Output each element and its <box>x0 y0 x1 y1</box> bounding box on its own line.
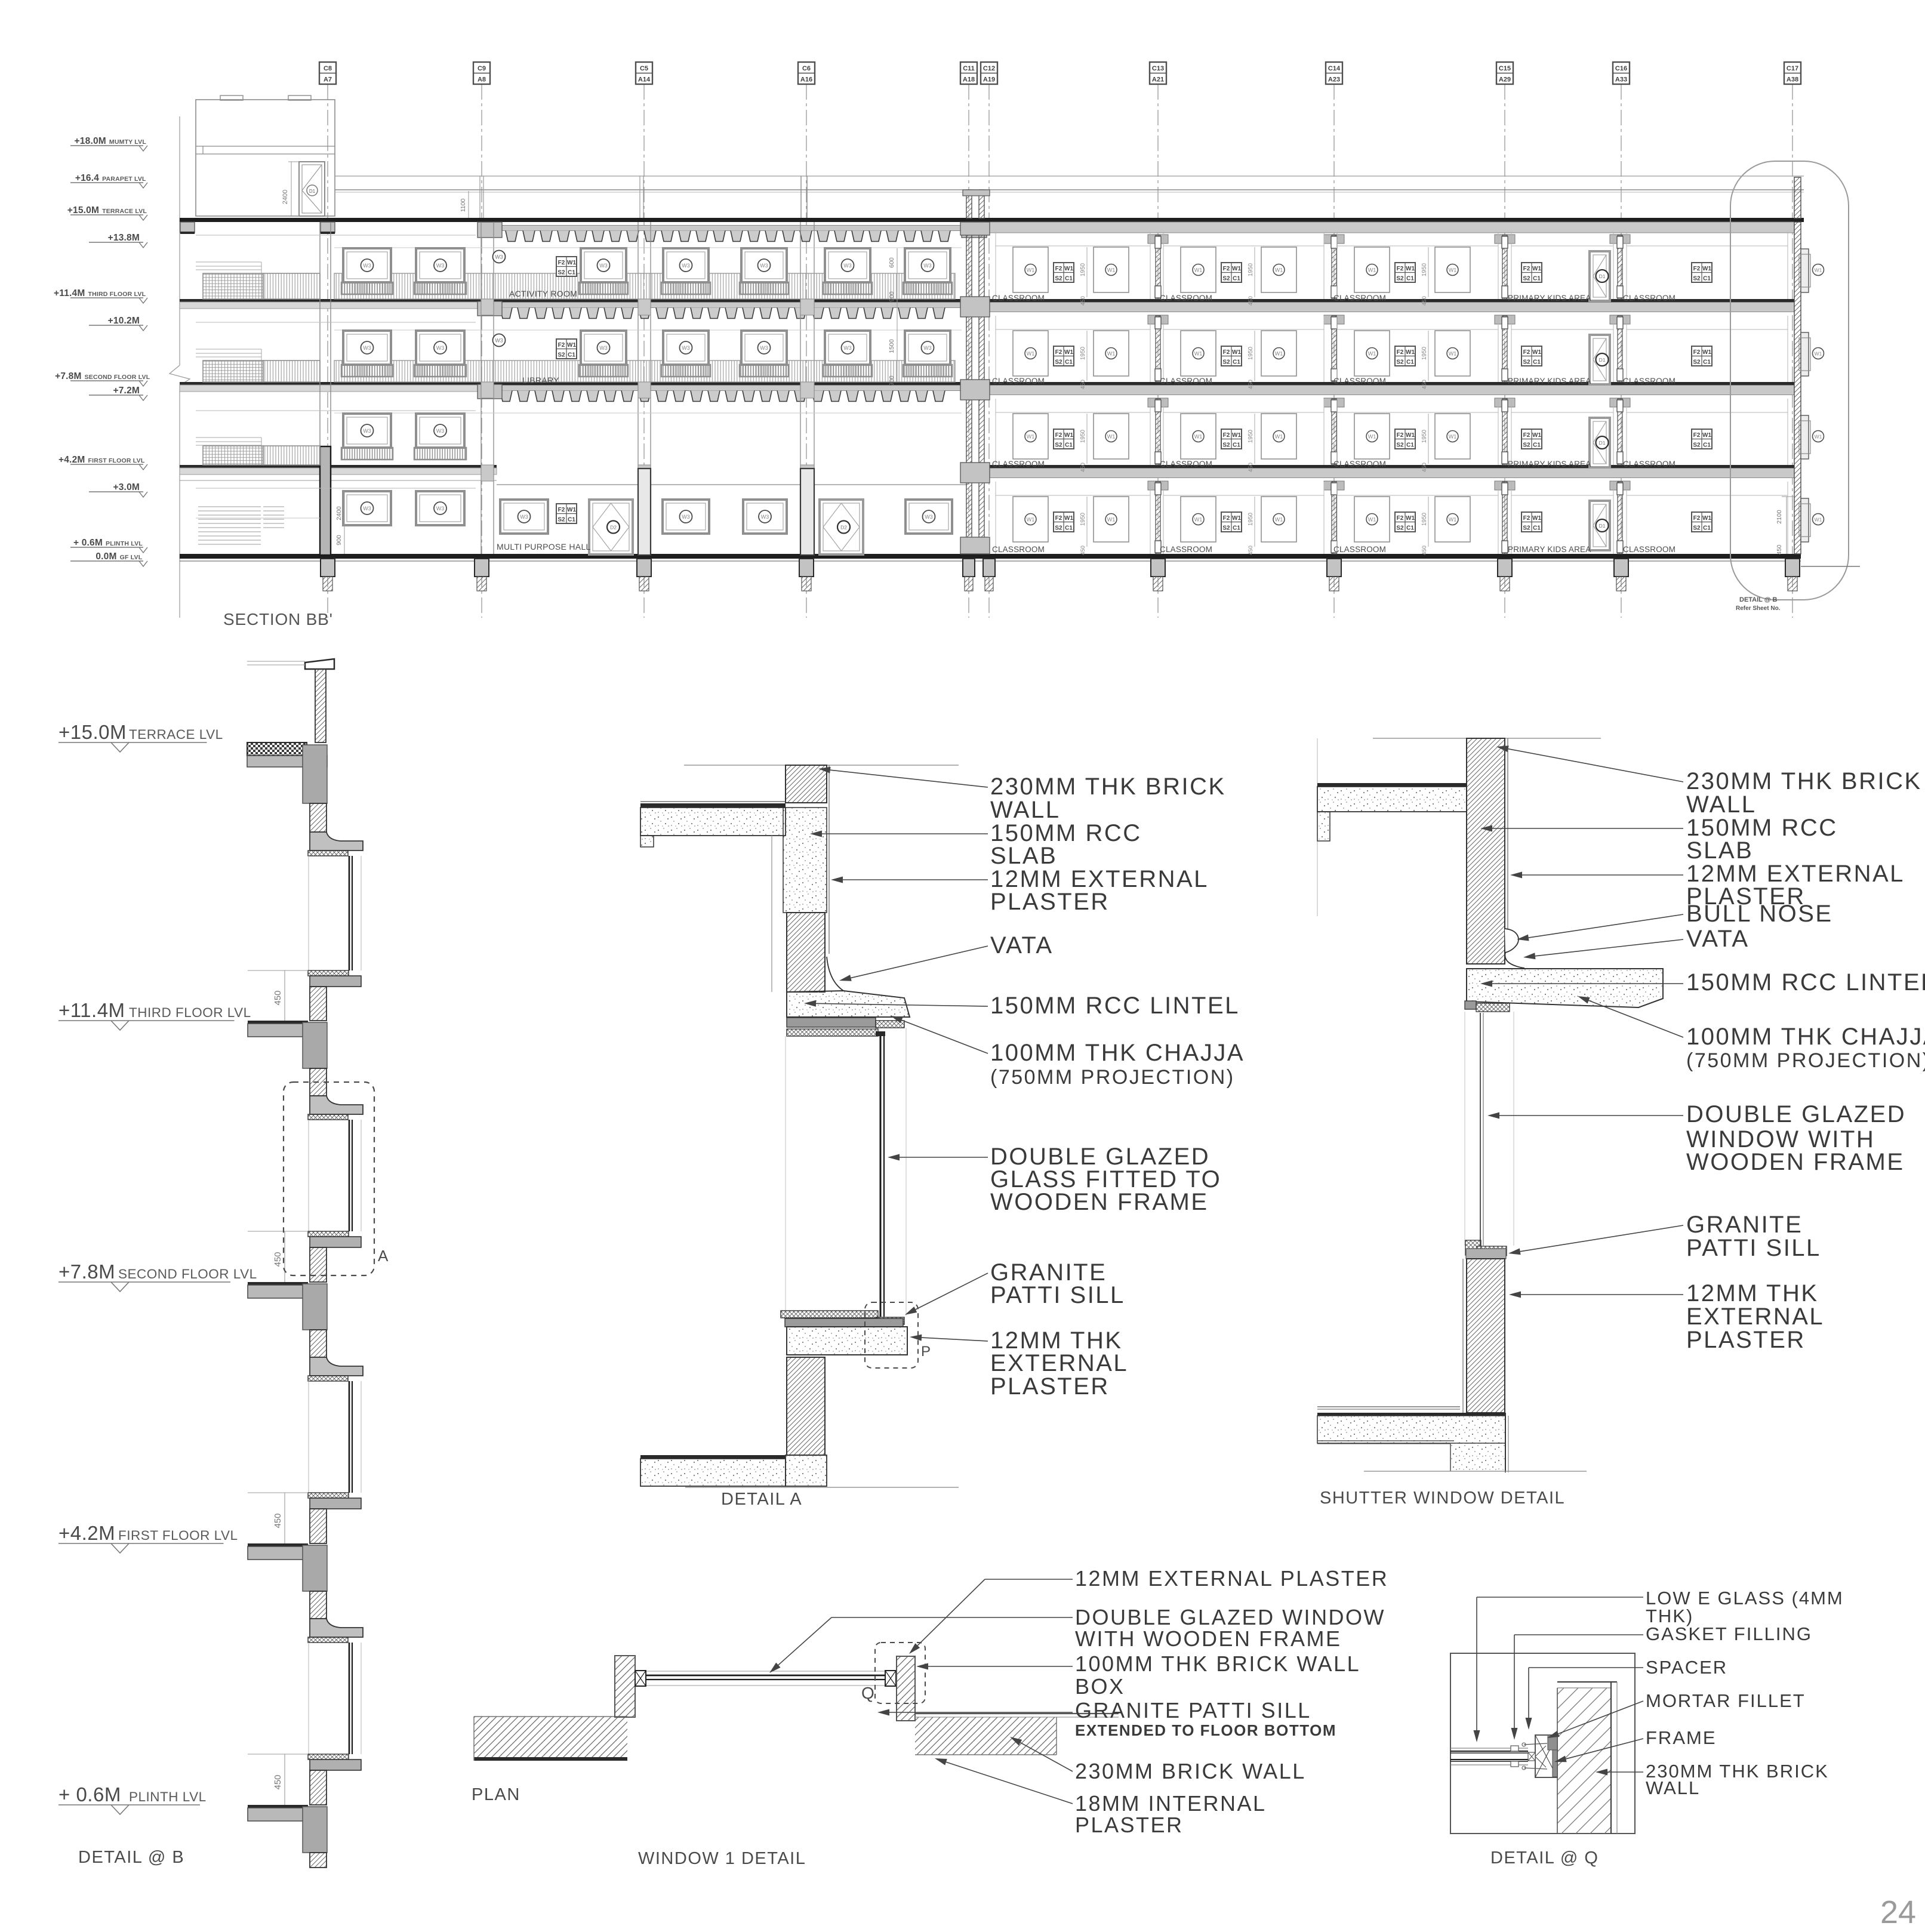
svg-text:1950: 1950 <box>1080 346 1086 360</box>
svg-text:W3: W3 <box>682 345 690 351</box>
svg-text:S2: S2 <box>1693 442 1701 449</box>
grid bubble C9/A8 <box>473 62 490 84</box>
svg-text:W1: W1 <box>1406 432 1415 439</box>
svg-text:C1: C1 <box>1703 276 1711 282</box>
svg-text:600: 600 <box>888 257 895 268</box>
svg-text:W1: W1 <box>1449 351 1457 357</box>
svg-text:CLASSROOM: CLASSROOM <box>1623 377 1675 386</box>
second floor slab band with waffle ribs <box>497 382 962 386</box>
svg-text:CLASSROOM: CLASSROOM <box>992 460 1045 469</box>
window W1 <box>1354 247 1390 292</box>
tag box F2/W1/S2/C1 <box>1692 263 1712 282</box>
window W3 <box>663 331 709 365</box>
svg-text:W1: W1 <box>1368 434 1376 440</box>
tag box F2/W1/S2/C1 <box>1221 263 1242 282</box>
bay CLASSROOM row r3 <box>995 233 996 299</box>
svg-text:F2: F2 <box>1055 432 1062 439</box>
grid line C15/A29 <box>1504 84 1505 618</box>
level label +11.4M THIRD FLOOR LVL <box>70 297 143 298</box>
window W1 <box>1094 331 1129 376</box>
svg-text:W3: W3 <box>682 263 690 269</box>
svg-text:CLASSROOM: CLASSROOM <box>1160 545 1212 554</box>
svg-text:12MM THK: 12MM THK <box>1686 1280 1819 1307</box>
grid line C14/A23 <box>1333 84 1335 618</box>
tag box F2/W1/S2/C1 <box>556 504 577 523</box>
svg-text:F2: F2 <box>1397 432 1404 439</box>
svg-text:W1: W1 <box>1815 434 1822 440</box>
bay CLASSROOM row r3 <box>1336 233 1338 299</box>
sill <box>781 1311 878 1318</box>
svg-text:TERRACE LVL: TERRACE LVL <box>129 727 223 742</box>
right wall <box>915 1713 1119 1714</box>
svg-text:F2: F2 <box>1693 266 1701 272</box>
grid line C12/A19 <box>988 84 990 618</box>
svg-text:100MM THK BRICK WALL: 100MM THK BRICK WALL <box>1075 1651 1360 1676</box>
svg-text:1950: 1950 <box>1421 429 1428 443</box>
tag box F2/W1/S2/C1 <box>1395 263 1415 282</box>
svg-text:C15: C15 <box>1499 65 1511 72</box>
brick wall <box>1467 738 1505 964</box>
mumty tower <box>196 100 335 216</box>
svg-text:W1: W1 <box>1702 349 1711 356</box>
wall at C9 <box>481 222 482 554</box>
svg-text:450: 450 <box>1248 546 1254 555</box>
svg-text:+ 0.6M: + 0.6M <box>58 1783 121 1805</box>
dashed box Q <box>875 1643 925 1703</box>
window head lines <box>334 247 962 248</box>
svg-text:C1: C1 <box>1065 276 1073 282</box>
bay CLASSROOM row r2 <box>1626 316 1627 382</box>
terrace slab (thick section line) <box>180 218 1804 222</box>
svg-text:F2: F2 <box>1223 349 1230 356</box>
dim 1100 parapet <box>468 191 469 218</box>
svg-text:W1: W1 <box>567 507 576 513</box>
svg-text:C11: C11 <box>963 65 975 72</box>
svg-text:F2: F2 <box>1223 515 1230 522</box>
detail reference balloon <box>1730 161 1849 600</box>
window W1 <box>1013 497 1048 542</box>
svg-text:W1: W1 <box>1275 267 1283 273</box>
svg-text:S2: S2 <box>1222 442 1230 449</box>
tag box F2/W1/S2/C1 <box>1221 346 1242 366</box>
window (plan) <box>1450 1748 1528 1749</box>
svg-text:DOUBLE GLAZED: DOUBLE GLAZED <box>1686 1101 1906 1127</box>
svg-text:DETAIL A: DETAIL A <box>721 1490 802 1509</box>
svg-text:150MM RCC LINTEL: 150MM RCC LINTEL <box>1686 969 1925 996</box>
stair railing band <box>203 273 263 299</box>
wall below sill <box>310 1770 327 1805</box>
svg-text:C5: C5 <box>640 65 648 72</box>
svg-text:W3: W3 <box>495 254 503 260</box>
grid bubble C6/A16 <box>798 62 815 84</box>
svg-text:W3: W3 <box>682 514 690 520</box>
svg-text:2400: 2400 <box>335 506 343 520</box>
top reference line <box>684 765 959 766</box>
window W3 <box>343 491 391 525</box>
svg-text:C1: C1 <box>1703 359 1711 366</box>
dashed detail box A <box>284 1082 374 1275</box>
svg-text:450: 450 <box>1080 380 1086 389</box>
svg-text:C1: C1 <box>1703 525 1711 532</box>
svg-text:PATTI SILL: PATTI SILL <box>1686 1235 1821 1261</box>
svg-text:C1: C1 <box>1533 525 1541 532</box>
svg-text:CLASSROOM: CLASSROOM <box>992 545 1045 554</box>
svg-text:2400: 2400 <box>282 190 289 204</box>
sill level line + dim 450 <box>248 1231 308 1232</box>
svg-text:C1: C1 <box>1065 525 1073 532</box>
svg-text:CLASSROOM: CLASSROOM <box>1623 294 1675 303</box>
window W3 <box>581 248 626 282</box>
svg-text:230MM THK BRICK: 230MM THK BRICK <box>990 774 1226 800</box>
svg-text:+11.4M: +11.4M <box>54 288 85 298</box>
svg-text:ACTIVITY ROOM: ACTIVITY ROOM <box>509 289 577 298</box>
svg-text:LIBRARY: LIBRARY <box>522 375 559 385</box>
svg-text:A21: A21 <box>1152 76 1164 84</box>
level label +10.2M <box>89 325 143 326</box>
svg-text:D1: D1 <box>1599 273 1606 279</box>
svg-text:W3: W3 <box>599 263 608 269</box>
svg-text:F2: F2 <box>558 507 565 513</box>
frame blocks <box>635 1671 646 1686</box>
svg-text:F2: F2 <box>1693 349 1701 356</box>
window W1 <box>1354 331 1390 376</box>
svg-text:450: 450 <box>1248 296 1254 306</box>
svg-text:S2: S2 <box>1693 276 1701 282</box>
svg-text:450: 450 <box>273 1252 283 1267</box>
svg-text:+15.0M: +15.0M <box>67 205 99 215</box>
svg-text:SLAB: SLAB <box>990 843 1057 869</box>
stair zone lines and railings <box>196 235 476 236</box>
svg-text:W3: W3 <box>363 263 371 269</box>
tag box F2/W1/S2/C1 <box>556 339 577 359</box>
svg-text:S2: S2 <box>1396 276 1404 282</box>
svg-text:GF LVL: GF LVL <box>120 554 143 561</box>
svg-text:24: 24 <box>1880 1894 1916 1930</box>
interior dims <box>897 248 898 382</box>
window W1 <box>1013 247 1048 292</box>
grid line C9/A8 <box>481 84 482 618</box>
sill <box>308 1493 349 1498</box>
sill <box>308 1754 349 1760</box>
window W1 <box>1013 414 1048 459</box>
svg-text:F2: F2 <box>1523 432 1530 439</box>
svg-text:PRIMARY KIDS AREA: PRIMARY KIDS AREA <box>1508 545 1591 554</box>
window W1 <box>1181 247 1216 292</box>
tag box F2/W1/S2/C1 <box>1395 512 1415 532</box>
svg-text:SECOND FLOOR LVL: SECOND FLOOR LVL <box>118 1267 257 1281</box>
svg-text:1950: 1950 <box>1248 429 1254 443</box>
window W1 <box>1261 414 1296 459</box>
svg-text:F2: F2 <box>1523 515 1530 522</box>
svg-text:PLASTER: PLASTER <box>1686 1327 1806 1353</box>
svg-text:W1: W1 <box>1232 515 1241 522</box>
svg-text:W1: W1 <box>1064 515 1073 522</box>
svg-text:PLASTER: PLASTER <box>990 889 1110 915</box>
window W1 <box>1261 331 1296 376</box>
svg-text:W1: W1 <box>1815 351 1822 357</box>
svg-text:W3: W3 <box>520 514 528 520</box>
floor slab <box>248 1021 308 1024</box>
svg-text:F2: F2 <box>1055 349 1062 356</box>
first floor slab band <box>989 465 1794 469</box>
svg-text:PRIMARY KIDS AREA: PRIMARY KIDS AREA <box>1508 377 1591 386</box>
svg-text:P: P <box>921 1344 931 1360</box>
svg-text:MORTAR FILLET: MORTAR FILLET <box>1646 1690 1806 1711</box>
svg-text:450: 450 <box>1080 546 1086 555</box>
left wall <box>474 1716 627 1717</box>
door D1 <box>1590 251 1610 301</box>
grid line C13/A21 <box>1157 84 1159 618</box>
svg-text:EXTENDED TO FLOOR BOTTOM: EXTENDED TO FLOOR BOTTOM <box>1075 1721 1336 1739</box>
svg-text:F2: F2 <box>1693 515 1701 522</box>
wall above lintel <box>310 1591 327 1619</box>
svg-text:W1: W1 <box>567 342 576 349</box>
svg-text:F2: F2 <box>558 260 565 266</box>
classroom partition walls <box>1156 235 1160 299</box>
door D1 (mumty) <box>299 162 325 216</box>
svg-text:S2: S2 <box>558 270 565 276</box>
column caps below terrace <box>180 222 195 233</box>
bay PRIMARY KIDS AREA row r3 <box>1511 233 1512 299</box>
glazing <box>349 1643 350 1754</box>
svg-text:+3.0M: +3.0M <box>113 482 140 492</box>
svg-text:C1: C1 <box>1233 442 1240 449</box>
svg-text:CLASSROOM: CLASSROOM <box>1160 377 1212 386</box>
window W3 <box>416 414 464 448</box>
rcc lintel <box>787 991 910 1017</box>
svg-text:S2: S2 <box>558 517 565 523</box>
vata / chajja <box>310 1357 363 1376</box>
svg-text:A38: A38 <box>1787 76 1798 84</box>
svg-text:D1: D1 <box>1599 357 1606 363</box>
svg-text:S2: S2 <box>1523 442 1530 449</box>
wall at C5 <box>637 222 639 554</box>
svg-text:FRAME: FRAME <box>1646 1727 1717 1748</box>
grid bubble C17/A38 <box>1784 62 1801 84</box>
beam drop <box>303 1545 327 1591</box>
grid line C17/A38 <box>1792 84 1793 618</box>
glazing <box>349 1381 350 1493</box>
svg-text:W1: W1 <box>1275 517 1283 523</box>
wall below sill <box>1467 1259 1505 1413</box>
svg-text:S2: S2 <box>1523 359 1530 366</box>
chajja soffit <box>308 1376 348 1381</box>
rcc slab top <box>640 801 786 802</box>
svg-text:A23: A23 <box>1328 76 1340 84</box>
svg-text:(750MM PROJECTION): (750MM PROJECTION) <box>1686 1049 1925 1072</box>
window W1 <box>1181 331 1216 376</box>
bottom slab <box>640 1455 786 1459</box>
svg-text:F2: F2 <box>558 342 565 349</box>
svg-text:F2: F2 <box>1055 266 1062 272</box>
sill <box>308 1231 349 1237</box>
svg-text:1950: 1950 <box>1248 263 1254 276</box>
svg-text:D2: D2 <box>840 525 847 531</box>
svg-text:W1: W1 <box>1368 267 1376 273</box>
svg-text:150MM RCC LINTEL: 150MM RCC LINTEL <box>990 993 1240 1019</box>
svg-text:1100: 1100 <box>460 199 467 212</box>
mortar fillet (grey) <box>1548 1736 1557 1750</box>
svg-text:450: 450 <box>1421 546 1428 555</box>
stair railing band <box>203 360 263 382</box>
svg-text:CLASSROOM: CLASSROOM <box>1623 460 1675 469</box>
ground floor stair steps <box>196 488 476 489</box>
svg-text:S2: S2 <box>1055 276 1062 282</box>
svg-text:W1: W1 <box>1027 517 1035 523</box>
svg-text:W1: W1 <box>1194 434 1203 440</box>
svg-text:WINDOW 1 DETAIL: WINDOW 1 DETAIL <box>638 1849 806 1868</box>
svg-text:F2: F2 <box>1397 349 1404 356</box>
right pier <box>897 1656 915 1721</box>
svg-text:S2: S2 <box>1055 442 1062 449</box>
svg-text:PRIMARY KIDS AREA: PRIMARY KIDS AREA <box>1508 460 1591 469</box>
level label +16.4 PARAPET LVL <box>70 182 143 183</box>
svg-text:C1: C1 <box>568 352 575 359</box>
tag box F2/W1/S2/C1 <box>1221 512 1242 532</box>
svg-text:C1: C1 <box>1065 359 1073 366</box>
SHUTTER WINDOW DETAIL drawing <box>1373 738 1601 739</box>
sill level line + dim 450 <box>248 1492 308 1493</box>
svg-text:A18: A18 <box>963 76 975 84</box>
svg-text:+ 0.6M: + 0.6M <box>73 538 103 548</box>
window W1 <box>1435 414 1470 459</box>
window W1 <box>1181 497 1216 542</box>
grid bubble C15/A29 <box>1496 62 1513 84</box>
svg-text:W1: W1 <box>1368 351 1376 357</box>
svg-text:W1: W1 <box>1027 434 1035 440</box>
parapet coping <box>305 659 334 669</box>
svg-text:W1: W1 <box>1449 434 1457 440</box>
dim 2400 door D1 <box>291 162 292 216</box>
svg-text:PLASTER: PLASTER <box>1075 1813 1184 1837</box>
svg-text:S2: S2 <box>1523 276 1530 282</box>
svg-text:450: 450 <box>1421 296 1428 306</box>
third floor slab band with waffle ribs <box>497 299 962 303</box>
dim 2100 right GF <box>1786 497 1787 554</box>
tag box F2/W1/S2/C1 <box>1395 429 1415 449</box>
level label +7.2M <box>89 395 143 396</box>
svg-text:W3: W3 <box>923 345 932 351</box>
svg-text:W1: W1 <box>1027 351 1035 357</box>
window W3 <box>416 491 464 525</box>
svg-text:W3: W3 <box>760 345 768 351</box>
beam drop blocks <box>1148 235 1168 244</box>
svg-text:C1: C1 <box>568 270 575 276</box>
svg-text:D1: D1 <box>1599 440 1606 446</box>
tag box F2/W1/S2/C1 <box>1054 263 1074 282</box>
level label +18.0M MUMTY LVL <box>70 145 143 146</box>
window W1 <box>1261 497 1296 542</box>
svg-text:C1: C1 <box>1233 525 1240 532</box>
svg-text:C8: C8 <box>324 65 332 72</box>
svg-text:PLAN: PLAN <box>472 1785 520 1804</box>
svg-text:W1: W1 <box>1532 266 1541 272</box>
svg-text:F2: F2 <box>1223 266 1230 272</box>
svg-text:A: A <box>378 1247 389 1265</box>
svg-text:A19: A19 <box>983 76 995 84</box>
svg-text:W1: W1 <box>1107 517 1116 523</box>
dim 2400/900 GF window <box>344 491 345 554</box>
bay CLASSROOM row r2 <box>1163 316 1164 382</box>
svg-text:SLAB: SLAB <box>1686 837 1753 864</box>
window W3 <box>416 331 464 365</box>
svg-text:450: 450 <box>1248 380 1254 389</box>
window W3 <box>663 248 709 282</box>
level label +3.0M <box>89 491 143 492</box>
svg-text:W1: W1 <box>1275 351 1283 357</box>
door D2 <box>589 500 633 554</box>
vata curve <box>827 957 843 991</box>
svg-text:WALL: WALL <box>990 797 1060 823</box>
tag box F2/W1/S2/C1 <box>1692 429 1712 449</box>
svg-text:PARAPET LVL: PARAPET LVL <box>102 175 146 183</box>
glazing <box>349 1120 350 1231</box>
bay PRIMARY KIDS AREA row gf <box>1511 482 1512 554</box>
svg-text:C12: C12 <box>983 65 995 72</box>
svg-text:W1: W1 <box>1275 434 1283 440</box>
svg-text:C1: C1 <box>568 517 575 523</box>
svg-text:F2: F2 <box>1223 432 1230 439</box>
bay CLASSROOM row r1 <box>1626 399 1627 465</box>
svg-text:W1: W1 <box>1532 432 1541 439</box>
svg-text:W1: W1 <box>1702 432 1711 439</box>
grid bubble C13/A21 <box>1150 62 1166 84</box>
svg-text:900: 900 <box>888 291 895 302</box>
wall below sill <box>310 1247 327 1282</box>
svg-text:450: 450 <box>1776 544 1783 554</box>
sill level line + dim 450 <box>248 1754 308 1755</box>
svg-text:S2: S2 <box>1222 276 1230 282</box>
svg-text:1950: 1950 <box>1080 429 1086 443</box>
svg-text:1950: 1950 <box>1421 346 1428 360</box>
svg-text:Refer Sheet No.: Refer Sheet No. <box>1736 605 1781 612</box>
svg-text:100MM THK CHAJJA: 100MM THK CHAJJA <box>1686 1024 1925 1050</box>
svg-text:GRANITE: GRANITE <box>1686 1212 1803 1238</box>
parapet posts at grids <box>479 176 481 218</box>
svg-text:PATTI SILL: PATTI SILL <box>990 1282 1125 1308</box>
svg-text:450: 450 <box>273 1774 283 1789</box>
svg-text:W1: W1 <box>1232 349 1241 356</box>
svg-text:+7.8M: +7.8M <box>58 1261 115 1283</box>
svg-text:SHUTTER WINDOW DETAIL: SHUTTER WINDOW DETAIL <box>1320 1489 1565 1508</box>
svg-text:F2: F2 <box>1523 266 1530 272</box>
bay CLASSROOM row r3 <box>1626 233 1627 299</box>
svg-text:1500: 1500 <box>888 339 895 353</box>
svg-text:S2: S2 <box>1523 525 1530 532</box>
svg-text:+7.2M: +7.2M <box>113 386 140 396</box>
level label +15.0M TERRACE LVL <box>70 214 143 215</box>
door D1 <box>1590 501 1610 550</box>
svg-text:A7: A7 <box>324 76 332 84</box>
svg-text:W3: W3 <box>436 263 445 269</box>
window W1 <box>1094 247 1129 292</box>
bay CLASSROOM row r1 <box>1336 399 1338 465</box>
svg-text:450: 450 <box>1421 463 1428 472</box>
svg-text:DETAIL @ Q: DETAIL @ Q <box>1490 1848 1598 1868</box>
svg-text:W1: W1 <box>1232 432 1241 439</box>
door D1 <box>1590 418 1610 467</box>
level label + 0.6M PLINTH LVL <box>70 547 143 548</box>
window W3 <box>500 500 548 534</box>
svg-text:W3: W3 <box>761 514 769 520</box>
vata / chajja <box>310 1619 363 1637</box>
svg-text:2100: 2100 <box>1776 510 1783 524</box>
window glazing (plan) <box>635 1671 896 1672</box>
svg-text:PRIMARY KIDS AREA: PRIMARY KIDS AREA <box>1508 294 1591 303</box>
svg-text:DETAIL @ B: DETAIL @ B <box>78 1848 184 1867</box>
svg-text:CLASSROOM: CLASSROOM <box>992 377 1045 386</box>
svg-text:W3: W3 <box>843 345 852 351</box>
